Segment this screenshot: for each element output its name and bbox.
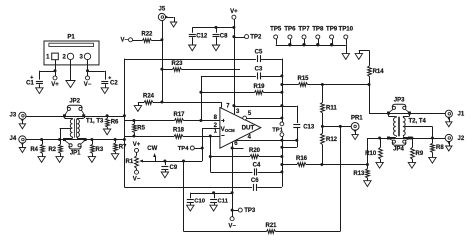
jumper JP1 (65, 141, 84, 157)
node TP bus (302, 43, 305, 46)
ground C1 (36, 88, 43, 94)
svg-text:TP7: TP7 (298, 26, 310, 33)
node R16 right / R13 (366, 163, 369, 166)
ground R7 (111, 154, 118, 160)
connector J4 (10, 136, 26, 148)
node C8 line (215, 26, 218, 29)
node R14 bottom (368, 83, 371, 86)
node R16 left (280, 163, 283, 166)
node pin4 line A (280, 139, 283, 142)
node J1 line pad (408, 112, 411, 115)
ground C9 (161, 172, 168, 178)
wire T2 tap to R8 (405, 126, 433, 128)
wire P1 pin1 to V+ node (55, 60, 57, 71)
wire pin 6 to V- (232, 142, 234, 216)
pad JP3 right (408, 112, 411, 115)
node R10 top (378, 137, 381, 140)
svg-text:JP4: JP4 (393, 147, 404, 153)
svg-text:DUT: DUT (242, 125, 255, 132)
resistor R18 (124, 128, 219, 139)
svg-text:R19: R19 (253, 84, 265, 90)
svg-text:JP3: JP3 (394, 97, 405, 103)
resistor R11 (321, 85, 338, 127)
capacitor C9 (160, 161, 177, 172)
svg-text:C8: C8 (220, 33, 228, 39)
svg-text:R9: R9 (416, 151, 424, 157)
svg-text:TP6: TP6 (284, 26, 296, 33)
wire out- vertical (282, 137, 284, 187)
svg-text:TP4: TP4 (178, 146, 190, 152)
node C9 top (163, 160, 166, 163)
svg-text:C6: C6 (251, 178, 259, 184)
svg-text:C13: C13 (303, 124, 315, 130)
node out- C13 (280, 146, 283, 149)
ground J2 (446, 146, 452, 151)
svg-text:V+: V+ (230, 9, 238, 15)
arrow CW (147, 146, 157, 161)
svg-text:R22: R22 (141, 31, 153, 37)
resistor R19 (201, 84, 282, 95)
svg-text:J1: J1 (458, 112, 465, 118)
resistor R14 (368, 50, 385, 84)
node out+ / C13 line (280, 104, 283, 107)
node R6 top (106, 114, 109, 117)
node R19 right (280, 91, 283, 94)
svg-text:V−: V− (228, 223, 236, 229)
svg-text:T1, T3: T1, T3 (86, 119, 104, 125)
node R12 bottom (320, 163, 323, 166)
potentiometer R1 (126, 142, 143, 183)
node TP4 (201, 147, 204, 150)
test point TP3 (232, 208, 256, 214)
P1 pin 3 (79, 53, 90, 60)
transformer T1, T3 (65, 116, 105, 140)
wire VOCM to bottom rail (183, 161, 185, 231)
node V+ branch (232, 104, 235, 107)
pin 4 output wire (236, 140, 297, 142)
pin 5 output (243, 116, 282, 120)
svg-text:JP1: JP1 (70, 151, 81, 157)
svg-text:C3: C3 (255, 66, 263, 72)
svg-text:R6: R6 (111, 120, 119, 126)
svg-text:R16: R16 (296, 156, 308, 162)
test point TP6 (284, 26, 296, 45)
capacitor C10 (186, 193, 214, 206)
jumper JP2 (65, 99, 84, 115)
node TP bus (316, 43, 319, 46)
wire J4 input (26, 139, 125, 141)
svg-text:PR1: PR1 (351, 115, 363, 121)
resistor R20 (210, 148, 282, 158)
node R9 top (410, 137, 413, 140)
node R4 top (40, 138, 43, 141)
ground R10 (376, 162, 383, 168)
node J4 end (123, 138, 126, 141)
svg-text:V−: V− (84, 82, 92, 88)
pad JP2 right (82, 114, 85, 117)
wire V+ vertical (234, 19, 236, 114)
wire VOCM line (143, 161, 202, 163)
capacitor C5 (124, 49, 282, 63)
wire out+ to JP3 line (369, 85, 371, 114)
resistor R12 (321, 126, 338, 164)
svg-text:TP5: TP5 (270, 26, 282, 33)
node R5 bottom (132, 135, 135, 138)
ground R24 (134, 102, 141, 111)
wire J3 input (26, 116, 125, 118)
node V- P1 (86, 69, 89, 72)
node R11 top (321, 83, 324, 86)
ground R4 (38, 157, 45, 163)
wire pin1 feedback vertical (210, 136, 212, 172)
svg-text:R11: R11 (326, 105, 337, 111)
svg-text:TP8: TP8 (312, 26, 324, 33)
connector J3 (10, 112, 26, 124)
svg-text:C12: C12 (196, 33, 208, 39)
svg-text:R23: R23 (171, 61, 183, 67)
svg-text:R3: R3 (96, 147, 104, 153)
svg-text:R18: R18 (173, 128, 185, 134)
node V+ P1 (54, 69, 57, 72)
wire J5 vertical (162, 21, 164, 103)
pad JP4 right (408, 137, 411, 140)
node R19 left (199, 91, 202, 94)
svg-text:R1: R1 (126, 159, 134, 165)
resistor R15 (282, 76, 369, 86)
capacitor C6 (124, 178, 282, 192)
wire R14 top elbow (359, 50, 369, 52)
test point TP2 (234, 35, 262, 41)
resistor R22 (133, 31, 162, 42)
wire P1 pin3 to V- node (87, 60, 89, 71)
resistor R21 (265, 223, 340, 233)
wire C12/C8 branch (192, 27, 234, 29)
terminal V- (P1) (84, 71, 92, 88)
resistor R17 (124, 112, 219, 122)
resistor R6 (106, 116, 119, 129)
node VOCM/x183 (182, 160, 185, 163)
node R18/pin1 (209, 135, 212, 138)
svg-text:TP3: TP3 (244, 208, 256, 214)
capacitor C11 (209, 193, 232, 206)
node pin4 line B (295, 139, 298, 142)
wire C3/R19 vertical (201, 76, 203, 121)
connector J5 (158, 6, 168, 20)
node R20 right (280, 155, 283, 158)
node C4 right (280, 170, 283, 173)
node R20 left (209, 155, 212, 158)
wire pin7 elbow (221, 102, 223, 108)
ground J1 (446, 122, 452, 127)
ground C11 (210, 205, 217, 211)
wire left vertical (input/feedback) (124, 59, 126, 188)
resistor R7 (114, 140, 127, 154)
node R24/J5 (160, 101, 163, 104)
ground R2 (56, 157, 63, 163)
node R11/R12 (321, 125, 324, 128)
svg-text:C11: C11 (218, 199, 229, 205)
resistor R13 (353, 165, 369, 181)
connector P1 (44, 34, 99, 65)
ground C2 (101, 88, 108, 94)
terminal V- bottom (228, 217, 236, 230)
svg-text:C1: C1 (26, 81, 34, 87)
resistor R4 (30, 140, 44, 157)
node R15 left (280, 83, 283, 86)
resistor R8 (431, 138, 445, 157)
pad JP2 left (63, 114, 66, 117)
probe PR1 (351, 115, 363, 134)
test point TP7 (298, 26, 310, 45)
resistor R10 (365, 138, 382, 162)
wire PR1 line (322, 126, 351, 128)
node PR1 rail (339, 125, 342, 128)
svg-text:C4: C4 (253, 162, 261, 168)
node TP bus (288, 43, 291, 46)
test point TP8 (312, 26, 324, 45)
wire T1 tap to R2 (60, 128, 71, 130)
svg-text:TP2: TP2 (250, 35, 262, 41)
wire rail to PR1 line (340, 126, 342, 231)
svg-text:J2: J2 (458, 136, 465, 142)
node pin5 line (280, 117, 283, 120)
svg-text:R24: R24 (143, 94, 155, 100)
svg-text:R21: R21 (265, 223, 277, 229)
ground J5 (170, 22, 176, 27)
capacitor C4 (210, 162, 282, 176)
ground C12 (189, 45, 196, 51)
node C10/C11 to V- (231, 191, 234, 194)
svg-text:R20: R20 (249, 148, 261, 154)
ground R13 (364, 181, 371, 187)
resistor R16 (282, 156, 368, 166)
ground J4 (19, 148, 25, 153)
test point TP5 (270, 26, 282, 45)
node V+ C12 line (232, 26, 235, 29)
node R2 top (58, 138, 61, 141)
test point TP9 (326, 26, 338, 45)
svg-text:R13: R13 (353, 171, 365, 177)
svg-text:R2: R2 (48, 147, 56, 153)
connector J1 (445, 110, 465, 122)
wire P1 pin2 to ground (70, 60, 72, 81)
svg-text:R7: R7 (119, 144, 127, 150)
ground R14 (355, 54, 362, 60)
wire TP bus (276, 45, 346, 47)
resistor R23 (162, 61, 240, 72)
node R5 top (132, 119, 135, 122)
svg-text:TP9: TP9 (326, 26, 338, 33)
svg-text:R10: R10 (365, 151, 377, 157)
wire out+ vertical (282, 59, 284, 122)
node TP3 (231, 209, 234, 212)
node C3 right (280, 74, 283, 77)
capacitor C12 (188, 27, 208, 45)
node R8 top (431, 137, 434, 140)
ground R8 (429, 157, 436, 163)
svg-text:R15: R15 (297, 76, 309, 82)
node J3 end (123, 114, 126, 117)
node R22/J5 (160, 38, 163, 41)
ground P1 pin2 (66, 81, 75, 88)
resistor R5 (133, 121, 146, 137)
ground R9 (408, 162, 415, 168)
wire TP10 to ground (346, 45, 348, 54)
svg-text:J5: J5 (159, 6, 166, 12)
node TP bus (330, 43, 333, 46)
jumper JP4 (389, 139, 409, 153)
terminal V+ top (230, 9, 238, 19)
capacitor C13 (282, 106, 315, 148)
connector J2 (445, 134, 465, 146)
resistor R3 (91, 140, 104, 157)
capacitor C3 (201, 66, 282, 80)
svg-text:R14: R14 (373, 69, 385, 75)
svg-text:C10: C10 (194, 199, 206, 205)
node R7 top (114, 138, 117, 141)
capacitor C2 (88, 71, 119, 88)
svg-text:TP10: TP10 (339, 26, 354, 33)
node TP2 (232, 35, 235, 38)
ground PR1 (352, 135, 358, 140)
pad JP3 left (387, 112, 390, 115)
resistor R24 (138, 94, 221, 105)
resistor R9 (411, 138, 424, 162)
terminal V- input (120, 38, 132, 44)
op-amp DUT (fully differential) (214, 103, 261, 148)
svg-text:JP2: JP2 (69, 99, 80, 105)
svg-text:V−: V− (133, 177, 141, 183)
svg-text:T2, T4: T2, T4 (409, 119, 427, 125)
svg-text:R5: R5 (137, 125, 145, 131)
svg-text:C9: C9 (170, 165, 178, 171)
capacitor C8 (212, 27, 229, 45)
node pin6 (231, 147, 234, 150)
node R3 top (90, 138, 93, 141)
svg-text:R17: R17 (173, 112, 185, 118)
test point TP1 (272, 122, 284, 137)
svg-text:J3: J3 (10, 112, 17, 118)
resistor R2 (48, 140, 62, 157)
svg-text:R12: R12 (326, 137, 338, 143)
jumper JP3 (389, 97, 409, 112)
ground C10 (187, 205, 194, 211)
svg-text:V+: V+ (51, 82, 59, 88)
ground TP bus (342, 54, 349, 60)
test point TP10 (339, 26, 354, 45)
P1 pin 1 (square pin) (46, 53, 58, 60)
wire pin6 stub (232, 148, 243, 150)
svg-text:TP1: TP1 (272, 127, 284, 133)
node pin8 junction (199, 119, 202, 122)
wire bottom rail (184, 231, 267, 233)
node R23 left (160, 68, 163, 71)
capacitor C1 (26, 71, 55, 88)
wire out- to JP4 line (367, 138, 369, 165)
pad JP1 right (84, 138, 87, 141)
svg-text:CW: CW (147, 146, 157, 152)
svg-text:P1: P1 (67, 34, 75, 40)
ground J3 (19, 124, 25, 129)
svg-text:R4: R4 (30, 147, 38, 153)
ground R3 (88, 157, 95, 163)
pad JP1 left (63, 138, 66, 141)
wire J5 to ground elbow (165, 17, 173, 19)
svg-text:V−: V− (120, 38, 128, 44)
svg-text:J4: J4 (10, 136, 17, 142)
svg-text:V+: V+ (133, 142, 141, 148)
ground C8 (212, 45, 219, 51)
ground R6 (103, 129, 110, 135)
wire pin2 VOCM jog (202, 128, 220, 130)
svg-text:C5: C5 (255, 49, 263, 55)
wire V+ pins line (234, 106, 297, 108)
terminal V+ (P1) (51, 71, 59, 88)
test point TP4 (178, 146, 203, 152)
P1 pin 2 (62, 53, 73, 60)
node C11 top (212, 191, 215, 194)
svg-text:R8: R8 (436, 145, 444, 151)
svg-text:C2: C2 (110, 81, 118, 87)
transformer T2, T4 (389, 113, 427, 138)
pad JP4 left (387, 137, 390, 140)
